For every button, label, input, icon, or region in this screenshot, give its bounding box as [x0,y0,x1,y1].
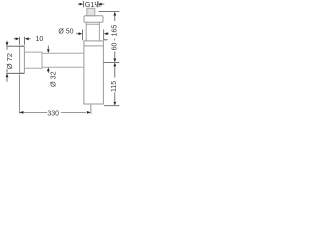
svg-text:60 - 165: 60 - 165 [111,25,118,51]
trap cup [84,41,104,104]
svg-text:330: 330 [47,110,59,117]
svg-text:Ø 72: Ø 72 [5,53,14,69]
wall sleeve behind rosette [24,52,42,68]
svg-text:G1¼: G1¼ [85,0,102,9]
cup rim line [84,45,104,47]
svg-text:Ø 50: Ø 50 [58,28,73,35]
mid adjustment pipe [86,23,99,41]
slip nut [84,16,103,22]
svg-text:Ø 32: Ø 32 [48,71,57,87]
dimension 115 (right lower) [104,67,119,106]
inlet pipe (G 1 1/4 tailpiece) [87,8,95,16]
dimension d50 (cup) [76,30,109,41]
dimension 10 (rosette depth) [14,37,31,45]
dimension G1 1/4 [78,1,105,7]
wall rosette (side view) [20,46,25,73]
dimension 330 (bottom) [19,75,91,115]
svg-text:10: 10 [36,36,44,43]
svg-text:115: 115 [111,81,118,92]
dimension 60-165 (right upper) [99,12,120,63]
horizontal pipe [42,53,84,67]
dimension d32 (pipe) [47,46,49,73]
dimension d72 (rosette diameter) [6,41,24,82]
